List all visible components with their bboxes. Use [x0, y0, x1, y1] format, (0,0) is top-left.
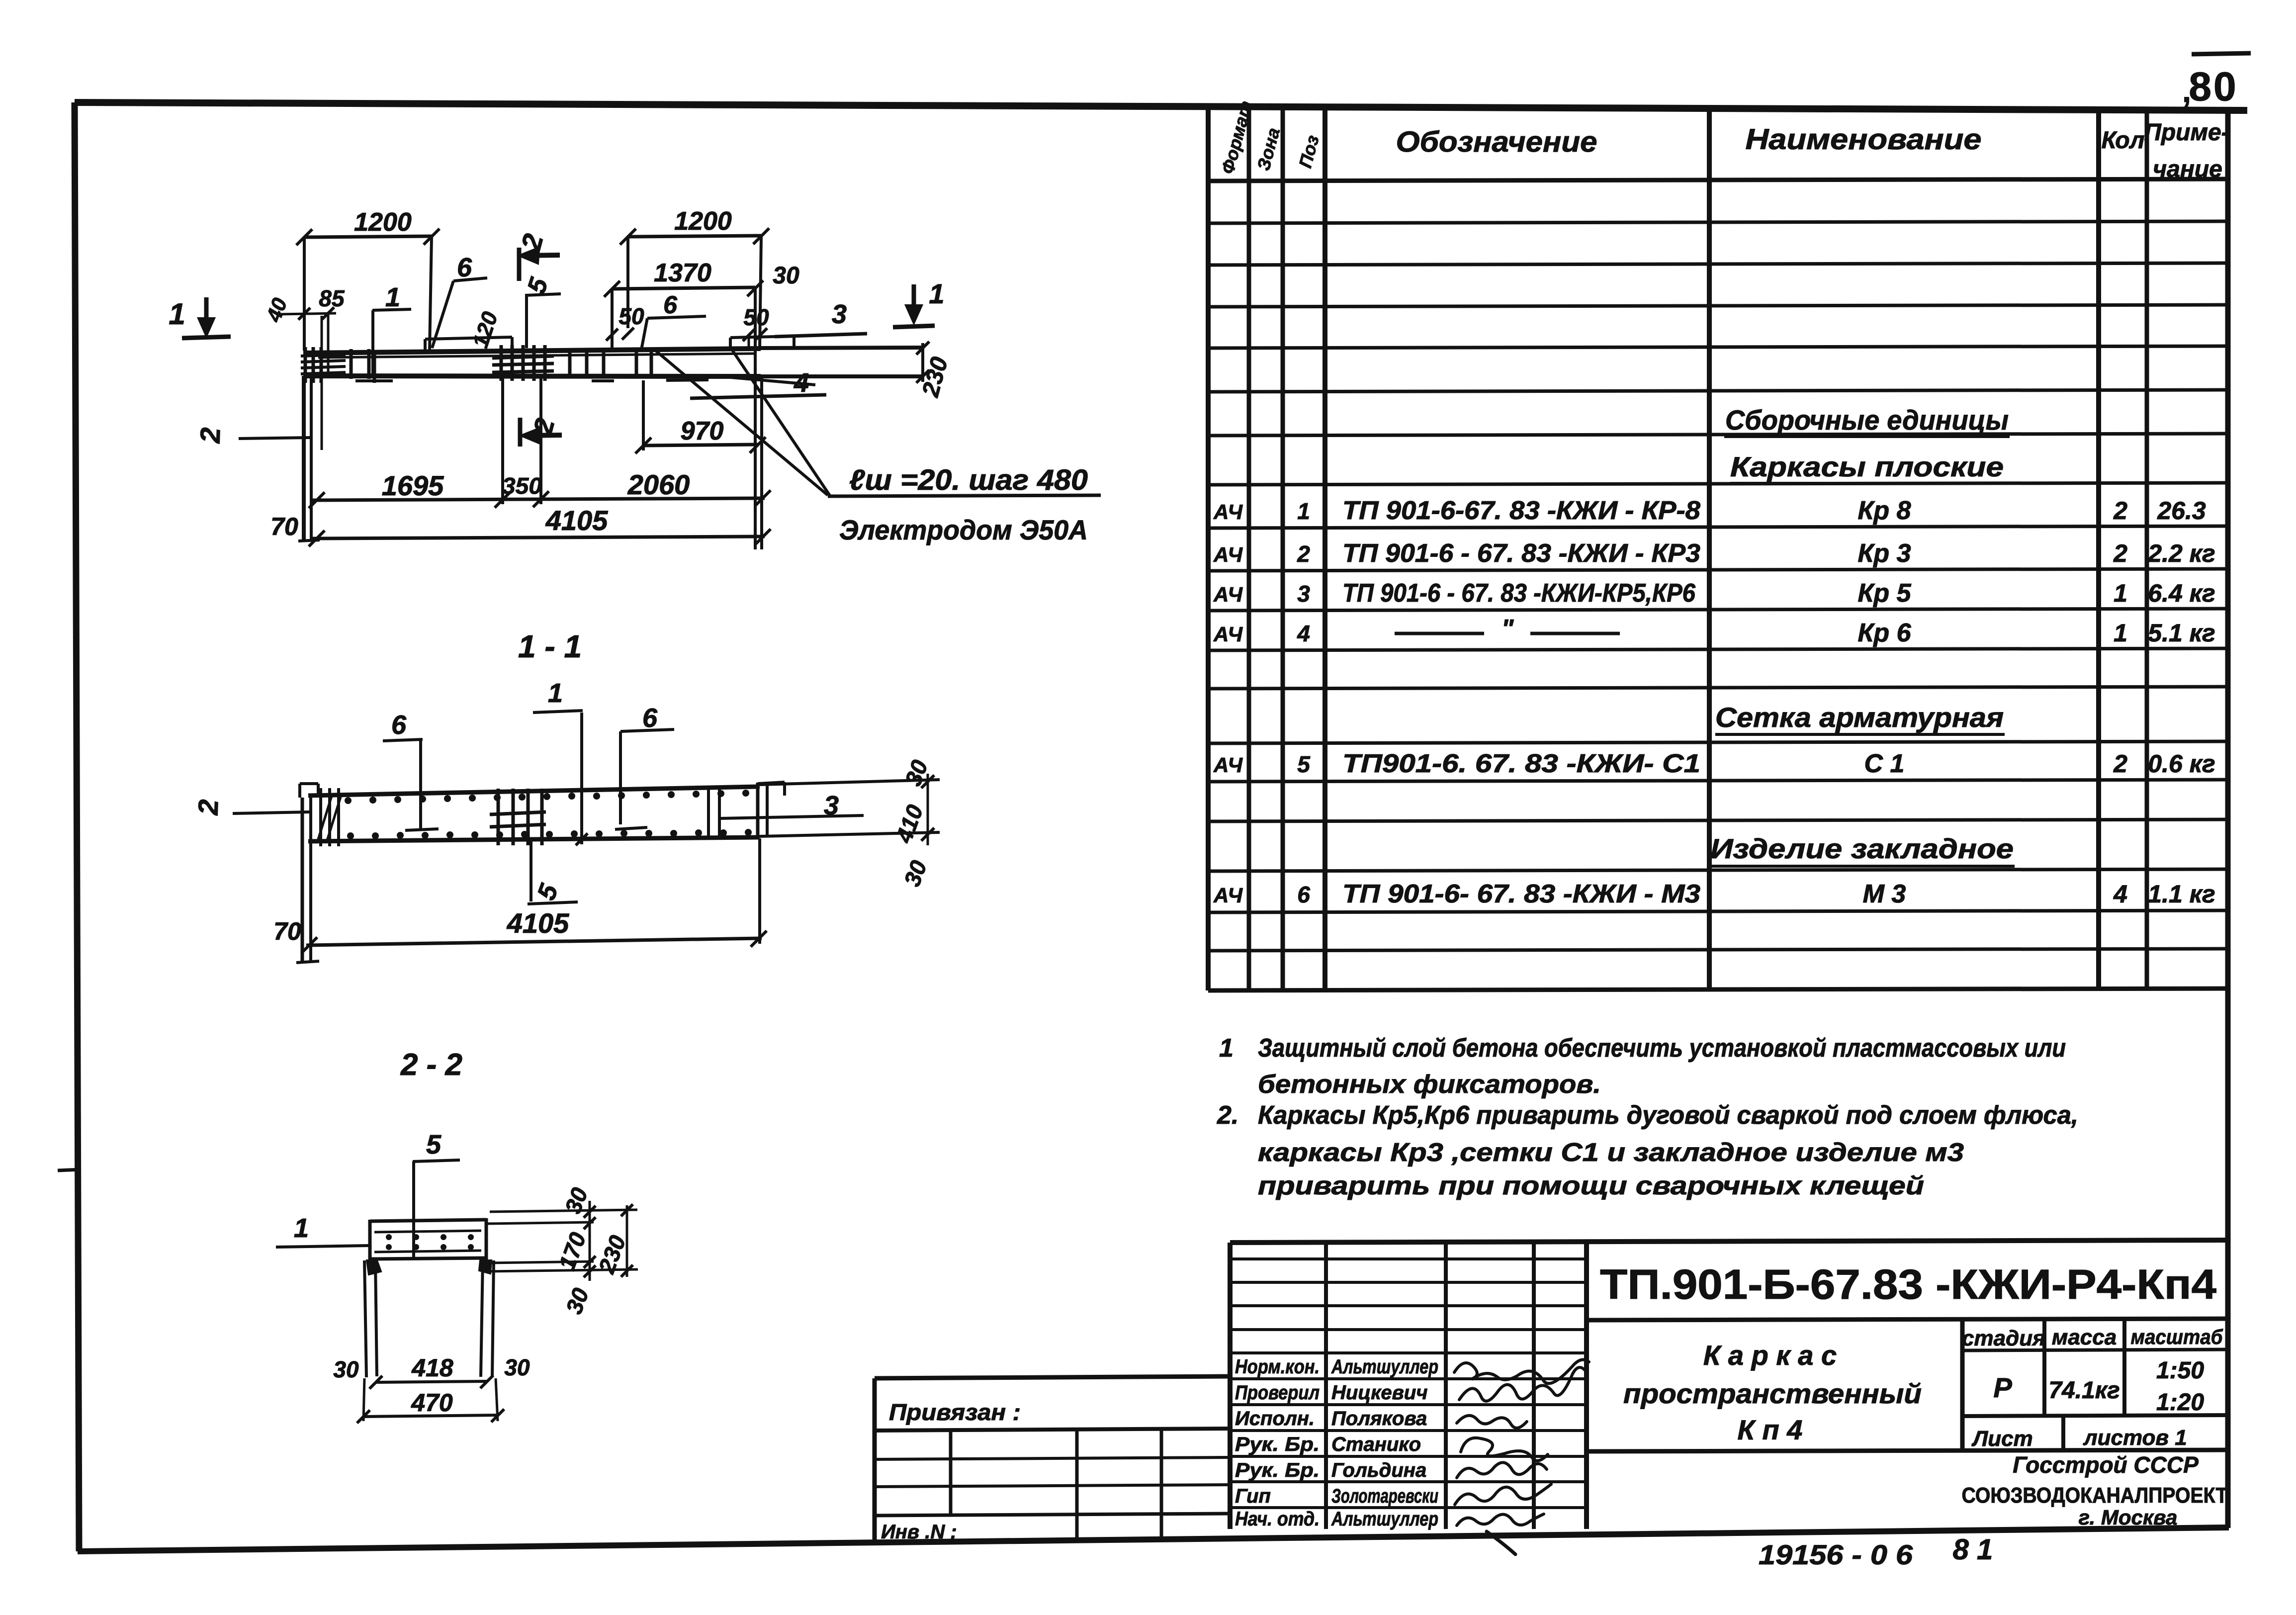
svg-text:3: 3: [1297, 581, 1310, 607]
section 1-1: beam outline: [308, 787, 760, 841]
svg-text:2: 2: [1297, 541, 1310, 567]
svg-text:К а р к а с: К а р к а с: [1703, 1340, 1837, 1371]
title text Каркас пространственный Кп4: [1623, 1340, 1922, 1445]
svg-text:4105: 4105: [507, 907, 569, 939]
table header: Формат (rotated): [1217, 98, 1256, 176]
svg-text:СОЮЗВОДОКАНАЛПРОЕКТ: СОЮЗВОДОКАНАЛПРОЕКТ: [1962, 1483, 2228, 1508]
svg-text:Гольдина: Гольдина: [1331, 1459, 1426, 1481]
section header: Сетка арматурная: [1715, 702, 2005, 734]
plan view: section mark 1 (right): [893, 278, 945, 327]
plan view: left vertical tail: [298, 376, 320, 541]
plan view: label 6 (first) with leader: [432, 253, 487, 348]
svg-text:ТП901-6. 67. 83 -КЖИ- С1: ТП901-6. 67. 83 -КЖИ- С1: [1342, 749, 1700, 778]
section 2-2: right extension lines: [486, 1210, 638, 1271]
svg-text:Инв .N :: Инв .N :: [881, 1521, 957, 1543]
svg-text:26.3: 26.3: [2157, 497, 2206, 525]
svg-text:Изделие закладное: Изделие закладное: [1710, 833, 2014, 864]
svg-text:1: 1: [385, 282, 400, 312]
svg-text:Кр 6: Кр 6: [1857, 619, 1911, 647]
section 1-1: label 2 with leader: [192, 799, 310, 816]
svg-text:1:50: 1:50: [2156, 1357, 2204, 1384]
plan view: section mark 2 (bottom): [520, 415, 562, 447]
svg-text:Кр 5: Кр 5: [1857, 579, 1911, 608]
svg-text:Привязан :: Привязан :: [889, 1399, 1021, 1425]
svg-text:листов 1: листов 1: [2083, 1426, 2187, 1450]
section 2-2: dimension 470: [357, 1389, 504, 1423]
svg-text:4: 4: [2113, 880, 2127, 908]
svg-text:5: 5: [1297, 751, 1311, 777]
section 2-2: bottom dimensions 30 418 30: [333, 1354, 530, 1421]
title block horizontal lines (right area): [1587, 1319, 2228, 1451]
svg-text:1 - 1: 1 - 1: [518, 628, 582, 664]
svg-text:Исполн.: Исполн.: [1235, 1408, 1315, 1430]
svg-text:1: 1: [294, 1213, 309, 1243]
designation ТП.901-6-67.83-КЖИ-Р4-Кп4: [1600, 1261, 2216, 1308]
svg-text:1: 1: [548, 678, 563, 708]
svg-text:Нач. отд.: Нач. отд.: [1235, 1508, 1320, 1530]
svg-text:6: 6: [457, 253, 472, 282]
svg-text:Золотаревски: Золотаревски: [1331, 1485, 1438, 1507]
table header: Зона (rotated): [1253, 126, 1284, 173]
table row поз.5: С 1: [1213, 749, 2215, 778]
page 81 pencil note: [1953, 1533, 1993, 1566]
svg-text:каркасы Кр3 ,сетки С1 и: каркасы Кр3 ,сетки С1 и закладное издели…: [1258, 1138, 1964, 1167]
svg-text:АЧ: АЧ: [1213, 884, 1243, 907]
svg-text:1:20: 1:20: [2156, 1389, 2204, 1416]
svg-text:8 1: 8 1: [1953, 1533, 1993, 1566]
svg-text:Обозначение: Обозначение: [1396, 126, 1597, 158]
table row поз.1: Кр 8: [1213, 496, 2206, 525]
svg-text:6.4 кг: 6.4 кг: [2148, 579, 2215, 607]
svg-text:Р: Р: [1993, 1372, 2012, 1403]
svg-text:приварить при помощи св: приварить при помощи сварочных клещей: [1258, 1171, 1924, 1200]
svg-text:Каркасы Кр5,Кр6 приварить: Каркасы Кр5,Кр6 приварить дуговой сварко…: [1258, 1101, 2078, 1130]
svg-text:масса: масса: [2052, 1325, 2117, 1349]
plan view: dimension 1200 (right): [620, 207, 769, 348]
svg-text:Кол: Кол: [2102, 127, 2145, 154]
specification table horizontal grid lines: [1208, 179, 2228, 990]
section header: Изделие закладное: [1710, 833, 2015, 866]
title block vertical dividers: [1326, 1241, 2124, 1529]
table row поз.3: Кр 5: [1213, 579, 2215, 608]
svg-text:чание: чание: [2153, 156, 2222, 182]
svg-text:Сетка арматурная: Сетка арматурная: [1715, 702, 2004, 733]
svg-text:1695: 1695: [382, 470, 444, 501]
stamp fields Лист / Листов 1: [1971, 1426, 2187, 1451]
svg-text:1.1 кг: 1.1 кг: [2148, 880, 2215, 908]
svg-text:Рук. Бр.: Рук. Бр.: [1235, 1459, 1320, 1481]
svg-text:6: 6: [1297, 882, 1310, 907]
svg-text:Альтшуллер: Альтшуллер: [1331, 1356, 1438, 1378]
svg-text:2: 2: [192, 799, 224, 816]
svg-text:1: 1: [2114, 619, 2127, 647]
plan view: section mark 2 (top): [515, 231, 560, 281]
section 2-2: slab outline: [370, 1218, 486, 1260]
section 1-1: left end stirrups: [318, 788, 341, 846]
title block horizontal lines (signatures area): [1230, 1259, 1587, 1508]
plan view: label 2 (left) with leader: [194, 427, 311, 444]
svg-text:2.2 кг: 2.2 кг: [2147, 539, 2215, 567]
svg-text:0.6 кг: 0.6 кг: [2148, 750, 2215, 778]
svg-text:30: 30: [333, 1356, 359, 1382]
section 2-2: mesh C1 bars: [374, 1231, 481, 1252]
plan view: left end block: [301, 347, 346, 383]
svg-text:Приме-: Приме-: [2144, 119, 2229, 146]
svg-text:Наименование: Наименование: [1746, 123, 1982, 156]
plan view: dimensions 1695 / 350 / 2060: [309, 378, 771, 508]
svg-text:1200: 1200: [674, 207, 732, 236]
svg-text:Станико: Станико: [1331, 1434, 1421, 1455]
table row поз.6: М 3: [1213, 880, 2215, 908]
plan view: dimension 70: [270, 513, 298, 540]
plan view: stirrup tick marks group B: [570, 348, 604, 378]
notes paragraph 1: [1219, 1034, 2066, 1099]
svg-text:1: 1: [1297, 498, 1310, 524]
svg-text:1: 1: [2114, 579, 2127, 607]
svg-text:Защитный слой бетона обеспе: Защитный слой бетона обеспечить установк…: [1258, 1034, 2066, 1063]
svg-text:2: 2: [2113, 497, 2127, 525]
section 2-2: dimension 30/170/30 (rotated): [553, 1184, 596, 1317]
section 1-1 title: [518, 628, 582, 664]
svg-text:6: 6: [391, 710, 407, 740]
section 1-1: dimension 70: [273, 917, 301, 945]
svg-text:Кр 8: Кр 8: [1857, 496, 1911, 525]
svg-text:1200: 1200: [354, 208, 412, 237]
plan view: label 1 with leader: [372, 282, 411, 377]
plan view: top plate A: [425, 337, 512, 351]
plan view: dimension 40 (rotated): [262, 295, 291, 325]
svg-text:Полякова: Полякова: [1331, 1408, 1427, 1430]
svg-text:30: 30: [504, 1354, 530, 1380]
svg-text:30: 30: [773, 263, 799, 289]
organisation Госстрой СССР / СОЮЗВОДОКАНАЛПРОЕКТ / г.Москва: [1962, 1452, 2228, 1529]
section 1-1: label 6 (right) with leader: [615, 703, 674, 829]
svg-text:масштаб: масштаб: [2131, 1325, 2223, 1348]
svg-text:АЧ: АЧ: [1213, 583, 1243, 606]
svg-text:Норм.кон.: Норм.кон.: [1235, 1356, 1320, 1378]
svg-text:Проверил: Проверил: [1235, 1382, 1320, 1404]
svg-text:418: 418: [411, 1354, 453, 1382]
svg-text:Ницкевич: Ницкевич: [1331, 1382, 1428, 1404]
svg-text:": ": [1501, 615, 1514, 643]
table header: Наименование: [1746, 123, 1982, 156]
section 1-1: dimension 4105: [301, 838, 767, 953]
page number 80 top right: [2182, 53, 2251, 109]
svg-text:АЧ: АЧ: [1213, 623, 1243, 646]
weld note Электродом Э50А: [839, 514, 1088, 545]
plan view: middle mesh cluster: [492, 345, 554, 381]
svg-text:АЧ: АЧ: [1213, 753, 1243, 777]
svg-text:Рук. Бр.: Рук. Бр.: [1235, 1434, 1320, 1455]
table row поз.2: Кр 3: [1213, 539, 2215, 568]
svg-text:2 - 2: 2 - 2: [400, 1048, 462, 1082]
left edge registration tick: [58, 1169, 81, 1170]
svg-text:г. Москва: г. Москва: [2079, 1506, 2178, 1529]
inventory number 19156-06: [1759, 1539, 1913, 1570]
plan view: bottom chord segments: [355, 380, 708, 381]
svg-text:5: 5: [426, 1130, 442, 1160]
svg-text:Гип: Гип: [1235, 1485, 1271, 1507]
section 1-1: label 6 (left) with leader: [383, 710, 439, 830]
svg-text:3: 3: [832, 299, 847, 329]
section 1-1: label 5 with leader: [528, 841, 578, 904]
svg-text:М 3: М 3: [1863, 880, 1906, 908]
plan view: beam outline: [303, 348, 923, 376]
svg-text:470: 470: [411, 1389, 453, 1417]
section 2-2: label 5 with leader: [413, 1130, 460, 1258]
plan view: section mark 1 (left): [169, 297, 231, 338]
svg-text:74.1кг: 74.1кг: [2048, 1377, 2119, 1404]
svg-text:70: 70: [273, 917, 301, 945]
section 2-2: right leg: [479, 1260, 494, 1377]
section 2-2: left leg: [364, 1260, 381, 1377]
svg-text:970: 970: [681, 417, 724, 446]
section 2-2: dimension 230 (rotated): [593, 1204, 633, 1277]
svg-text:ТП 901-6 - 67. 83 -КЖИ-КР5,КР: ТП 901-6 - 67. 83 -КЖИ-КР5,КР6: [1342, 579, 1696, 608]
svg-text:АЧ: АЧ: [1213, 500, 1243, 524]
plan view: dimension 50 (right) with ticks: [743, 304, 769, 348]
svg-text:бетонных фиксаторов.: бетонных фиксаторов.: [1258, 1070, 1601, 1099]
svg-text:2: 2: [2113, 539, 2127, 567]
svg-text:пространственный: пространственный: [1623, 1378, 1922, 1409]
svg-text:5.1 кг: 5.1 кг: [2148, 619, 2215, 647]
section 1-1: label 1 with leader: [533, 678, 588, 845]
svg-text:С 1: С 1: [1864, 749, 1905, 778]
svg-text:350: 350: [502, 473, 542, 499]
specification table vertical grid lines: [1208, 107, 2147, 990]
stamp fields стадия масса масштаб: [1962, 1325, 2223, 1416]
plan view: dimension 30 (right): [773, 263, 799, 289]
plan view: dimension 85: [278, 285, 345, 450]
svg-text:Электродом Э50А: Электродом Э50А: [839, 514, 1088, 545]
signature rows: role and name columns: [1235, 1356, 1438, 1530]
section 1-1: right end element: [758, 782, 785, 839]
plan view: dimension 970: [635, 380, 766, 453]
plan view: dimension 1370: [604, 259, 763, 549]
svg-text:Сборочные единицы: Сборочные единицы: [1725, 404, 2009, 436]
svg-text:50: 50: [618, 303, 644, 329]
svg-text:Альтшуллер: Альтшуллер: [1331, 1508, 1438, 1530]
section 1-1: right extension bars (element 3): [760, 780, 940, 836]
plan view: dimension 50 (left) with ticks: [606, 303, 644, 341]
svg-text:2: 2: [194, 427, 226, 444]
plan view: label 3 with leader line: [775, 299, 867, 337]
svg-text:ТП 901-6- 67. 83 -КЖИ - М3: ТП 901-6- 67. 83 -КЖИ - М3: [1342, 880, 1700, 908]
svg-text:Госстрой СССР: Госстрой СССР: [2013, 1452, 2199, 1478]
section 1-1: rebar dots top: [345, 790, 749, 804]
section 1-1: left end notch and tail: [296, 784, 319, 963]
plan view: label 6 (second) with leader: [641, 291, 706, 350]
table header: Приме-чание: [2144, 119, 2229, 182]
weld note ℓш=20 шаг 480: [828, 464, 1101, 496]
svg-text:50: 50: [743, 304, 769, 330]
plan view: dimension 4105: [309, 378, 771, 549]
svg-text:Кр 3: Кр 3: [1857, 539, 1911, 568]
svg-text:ℓш =20. шаг 480: ℓш =20. шаг 480: [849, 464, 1088, 496]
svg-text:80: 80: [2189, 64, 2238, 109]
svg-text:1: 1: [1219, 1034, 1234, 1063]
svg-text:ТП.901-Б-67.83 -КЖИ-Р4-Кп4: ТП.901-Б-67.83 -КЖИ-Р4-Кп4: [1600, 1261, 2216, 1308]
notes paragraph 2: [1217, 1101, 2078, 1200]
svg-text:,: ,: [2182, 73, 2191, 109]
svg-text:1370: 1370: [654, 259, 711, 287]
svg-text:2.: 2.: [1217, 1101, 1238, 1130]
plan view: bottom plate and label 4: [690, 368, 826, 398]
table header: Обозначение: [1396, 126, 1597, 158]
svg-text:Лист: Лист: [1971, 1427, 2033, 1451]
section 1-1: middle mesh cluster: [490, 789, 546, 845]
section 1-1: right dimensions 30/410/30: [890, 756, 934, 890]
plan view: dimension 1200 (left): [296, 208, 440, 351]
svg-text:ТП 901-6 - 67. 83 -КЖИ - КР3: ТП 901-6 - 67. 83 -КЖИ - КР3: [1342, 539, 1700, 568]
svg-text:2: 2: [2113, 750, 2127, 778]
plan view: stirrup pair near label 6: [636, 348, 651, 377]
section 1-1: label 3 with leader line: [719, 791, 864, 820]
title block outer box: [1230, 1240, 2228, 1529]
plan view: rotated dimension 120: [468, 309, 503, 351]
table header: Поз (rotated): [1295, 133, 1323, 170]
plan view: dimension 230 (rotated, right end): [916, 342, 953, 400]
svg-text:1: 1: [169, 297, 185, 331]
plan view: label 5 with leader: [522, 274, 561, 348]
section header: Каркасы плоские: [1730, 451, 2005, 483]
svg-text:70: 70: [270, 513, 298, 540]
svg-text:2060: 2060: [627, 469, 690, 500]
svg-text:6: 6: [642, 703, 658, 733]
section 1-1: rebar dots bottom: [347, 829, 752, 839]
svg-text:1: 1: [929, 278, 944, 309]
svg-text:6: 6: [663, 291, 678, 319]
svg-text:ТП 901-6-67. 83 -КЖИ - КР-8: ТП 901-6-67. 83 -КЖИ - КР-8: [1342, 496, 1700, 525]
section 2-2: label 1 with leader: [276, 1213, 369, 1247]
section 1-1: right stirrup pair: [708, 790, 719, 839]
plan view: top plate B: [730, 336, 794, 349]
привязан box: [875, 1376, 1230, 1543]
svg-text:4: 4: [1297, 621, 1310, 646]
section 2-2 title: [400, 1048, 462, 1082]
svg-text:стадия: стадия: [1962, 1326, 2045, 1350]
section header: Сборочные единицы: [1724, 404, 2010, 437]
table row поз.4: Кр 6: [1213, 615, 2215, 647]
svg-text:АЧ: АЧ: [1213, 543, 1243, 566]
handwritten signatures: [1454, 1360, 1589, 1554]
svg-text:19156 - 0 6: 19156 - 0 6: [1759, 1539, 1913, 1570]
svg-text:4105: 4105: [545, 505, 608, 536]
plan view: weld leader diagonals: [654, 350, 830, 496]
plan view: stirrup tick marks group A: [351, 349, 374, 383]
svg-text:К п 4: К п 4: [1738, 1414, 1803, 1445]
svg-text:Каркасы плоские: Каркасы плоские: [1730, 451, 2004, 482]
svg-text:4: 4: [794, 368, 809, 398]
table header: Кол: [2102, 127, 2145, 154]
